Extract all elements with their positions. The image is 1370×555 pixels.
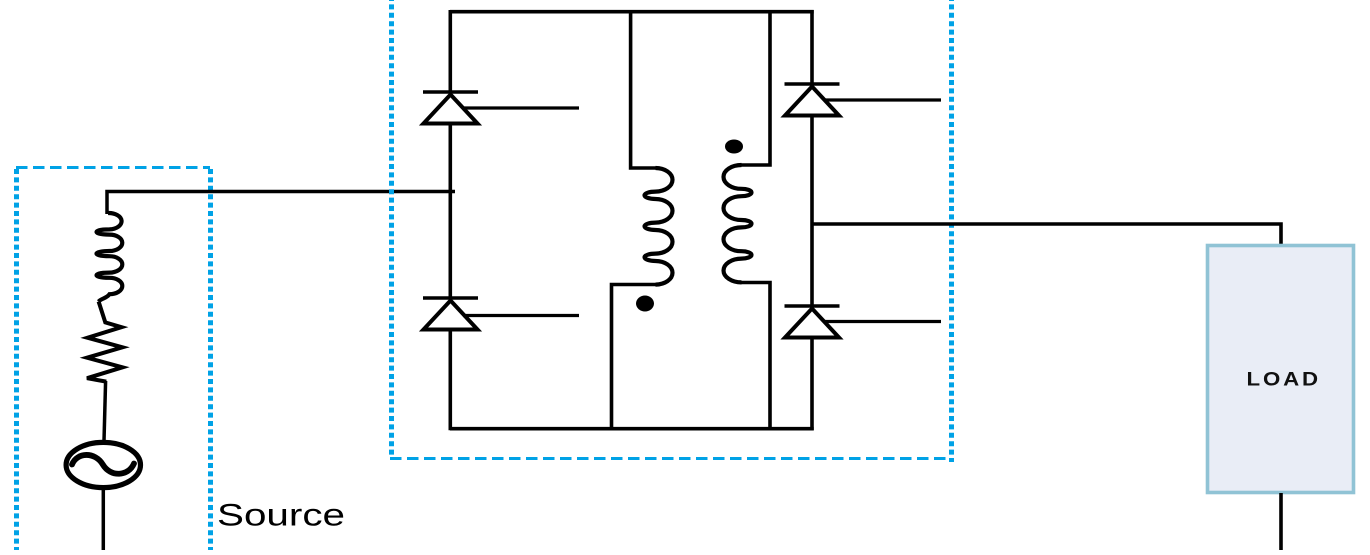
transformer secondary winding (724, 165, 752, 282)
thyristor T1 (top-left) (423, 92, 579, 124)
wire top rail (450, 10, 814, 14)
svg-text:LOAD: LOAD (1247, 369, 1322, 391)
AC source (66, 442, 140, 487)
resistor source R (87, 302, 123, 382)
wire load bottom (1279, 493, 1283, 552)
inductor source L (96, 213, 122, 302)
wire transformer primary bottom feed (612, 285, 657, 431)
transformer primary winding (645, 168, 673, 285)
thyristor T2 (bottom-left) (423, 298, 579, 330)
polarity dot secondary (725, 140, 743, 154)
label Source (217, 497, 345, 533)
wire output to load (812, 224, 1281, 246)
thyristor T3 (top-right) (785, 84, 942, 116)
wire transformer secondary top feed (741, 10, 770, 165)
wire bottom rail (450, 427, 814, 431)
wire left rail (448, 10, 452, 430)
thyristor T4 (bottom-right) (785, 306, 942, 338)
wire transformer primary top feed (631, 10, 656, 168)
wire source top to bridge input (107, 192, 455, 215)
wire resistor to AC source (104, 381, 106, 441)
wire transformer secondary bottom feed (741, 283, 770, 431)
converter block dashed border (390, 0, 952, 462)
LOAD block (1208, 246, 1354, 493)
svg-text:Source: Source (217, 497, 345, 533)
wire AC source bottom (102, 489, 106, 552)
wire right rail (810, 10, 814, 430)
polarity dot primary (636, 296, 654, 312)
source block dashed border (16, 168, 211, 555)
